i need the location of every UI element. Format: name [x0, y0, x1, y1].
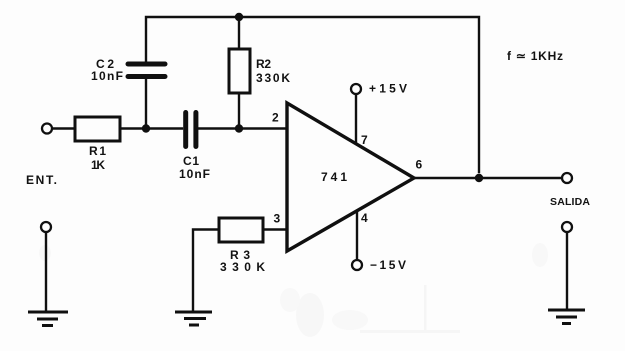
- svg-text:10nF: 10nF: [179, 167, 210, 181]
- svg-text:6: 6: [416, 158, 423, 172]
- svg-text:2: 2: [272, 111, 279, 125]
- svg-text:−15V: −15V: [370, 258, 406, 272]
- svg-text:R1: R1: [89, 144, 106, 158]
- svg-text:330K: 330K: [256, 71, 290, 85]
- svg-text:7: 7: [361, 133, 368, 147]
- svg-text:3: 3: [274, 212, 281, 226]
- svg-text:f ≃ 1KHz: f ≃ 1KHz: [507, 49, 563, 63]
- svg-text:1K: 1K: [91, 158, 105, 172]
- svg-text:10nF: 10nF: [91, 69, 123, 83]
- svg-text:4: 4: [361, 211, 368, 225]
- svg-text:SALIDA: SALIDA: [550, 196, 590, 208]
- svg-text:741: 741: [321, 170, 347, 184]
- svg-text:R2: R2: [256, 57, 271, 71]
- svg-text:C1: C1: [183, 154, 199, 168]
